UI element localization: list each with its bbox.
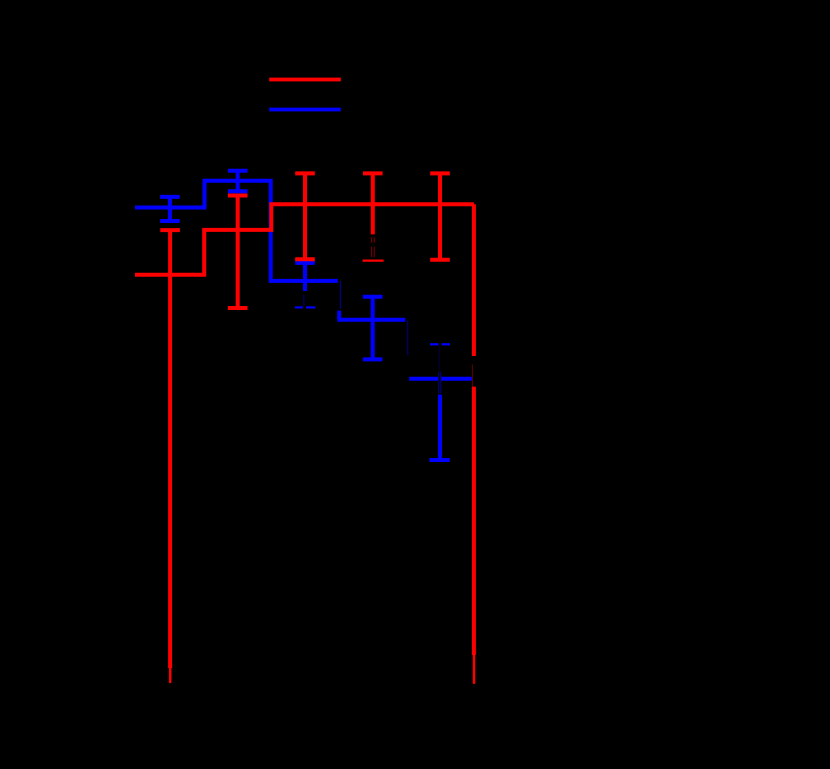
red closing edge lower x=473.9 — [472, 387, 476, 655]
blue step corner at bin edge x=339 — [337, 311, 405, 320]
blue step H5 — [409, 377, 472, 381]
blue errorbar point1 x=170 — [160, 197, 180, 221]
legend line blue series — [269, 108, 341, 112]
blue thin step remnant at edge x=407.6 — [407, 320, 409, 355]
red closing edge thin dark segment — [471, 365, 473, 387]
blue thin dashed upper error point5 — [438, 346, 440, 372]
red thin bottom cap point4 — [363, 260, 384, 262]
blue thin step remnant at edge x=340 — [339, 281, 341, 309]
red errorbar point5 x=440 — [430, 173, 450, 259]
red thin dashed lower error point4 — [372, 237, 375, 257]
red closing edge upper x=473.9 — [472, 204, 476, 356]
blue thin dashed through line point5 (double edge) — [439, 372, 441, 394]
red errorbar point3 x=305 — [295, 173, 315, 259]
red errorbar point4 upper x=372.8 — [363, 173, 383, 234]
red closing edge bottom thin tail — [473, 655, 476, 683]
red errorbar point1 bottom thin tail — [169, 668, 172, 682]
blue dashed top cap point5 — [430, 343, 450, 345]
blue errorbar point4 x=372.7 — [363, 297, 383, 360]
red errorbar point2 x=237.4 — [228, 196, 248, 309]
blue step line segments — [135, 181, 472, 379]
blue thin dashed lower error point3 — [303, 295, 305, 307]
red errorbar point1 x=170 — [160, 230, 180, 668]
blue dashed bottom cap point3 — [295, 306, 316, 308]
legend line red series — [269, 78, 341, 82]
blue step H1-V1-H2-V2-H3 — [135, 181, 338, 281]
blue errorbar point5 lower x=440 — [429, 395, 449, 460]
blue errorbar point2 x=237.4 — [228, 171, 248, 191]
red step line H1-V1-H2-V2-H3 — [135, 204, 474, 274]
blue errorbar point3 x=305 — [295, 263, 315, 291]
